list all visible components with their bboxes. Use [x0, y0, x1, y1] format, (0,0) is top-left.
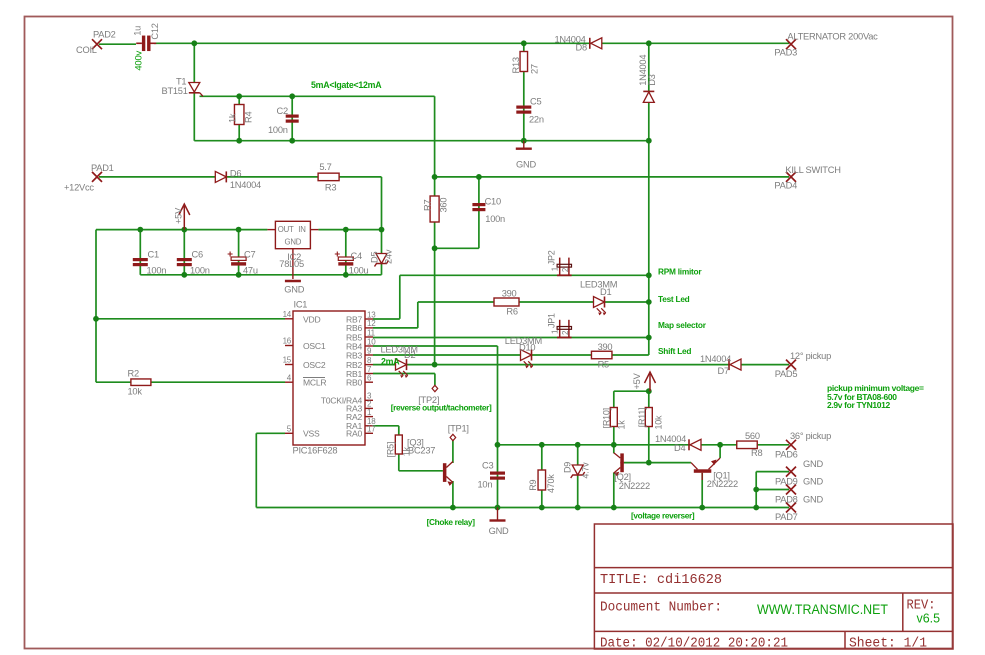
svg-text:MCLR: MCLR	[303, 378, 326, 388]
svg-text:ALTERNATOR 200Vac: ALTERNATOR 200Vac	[787, 32, 878, 42]
svg-text:[R10]: [R10]	[602, 408, 612, 428]
svg-text:COIL: COIL	[76, 45, 97, 55]
svg-text:13: 13	[367, 310, 376, 319]
svg-text:5.7: 5.7	[319, 162, 331, 172]
svg-text:PAD5: PAD5	[775, 369, 798, 379]
svg-text:400v: 400v	[134, 50, 145, 70]
svg-text:1N4004: 1N4004	[700, 354, 731, 364]
svg-text:BT151: BT151	[162, 86, 188, 96]
svg-text:GND: GND	[803, 495, 823, 505]
svg-text:D6: D6	[230, 169, 241, 179]
svg-text:36° pickup: 36° pickup	[790, 431, 831, 441]
svg-text:24v: 24v	[384, 249, 394, 264]
svg-text:GND: GND	[803, 477, 823, 487]
svg-text:22n: 22n	[529, 114, 544, 124]
svg-text:RB0: RB0	[346, 378, 362, 388]
svg-text:16: 16	[283, 337, 292, 346]
svg-text:C2: C2	[277, 106, 288, 116]
svg-text:D2: D2	[404, 350, 415, 360]
svg-text:JP2: JP2	[547, 250, 557, 265]
svg-text:GND: GND	[489, 526, 509, 536]
svg-text:PAD2: PAD2	[93, 30, 116, 40]
svg-text:R9: R9	[528, 480, 538, 491]
svg-text:C1: C1	[148, 250, 159, 260]
svg-text:5mA<Igate<12mA: 5mA<Igate<12mA	[311, 80, 382, 90]
svg-text:560: 560	[745, 431, 760, 441]
svg-text:C4: C4	[351, 251, 362, 261]
svg-text:100n: 100n	[147, 266, 167, 276]
svg-text:[voltage reverser]: [voltage reverser]	[631, 511, 695, 521]
svg-text:PIC16F628: PIC16F628	[293, 446, 338, 456]
svg-text:15: 15	[283, 356, 292, 365]
svg-text:1u: 1u	[133, 26, 143, 36]
svg-text:390: 390	[502, 289, 517, 299]
svg-text:C6: C6	[192, 250, 203, 260]
svg-text:10k: 10k	[128, 387, 143, 397]
svg-text:JP1: JP1	[547, 313, 557, 328]
svg-text:1k: 1k	[228, 113, 238, 123]
svg-text:RB3: RB3	[346, 350, 362, 360]
svg-text:100n: 100n	[190, 266, 210, 276]
svg-text:R8: R8	[751, 448, 762, 458]
svg-text:2N2222: 2N2222	[619, 481, 650, 491]
svg-text:D8: D8	[576, 43, 587, 53]
svg-text:C5: C5	[530, 97, 541, 107]
svg-text:Sheet: 1/1: Sheet: 1/1	[849, 636, 927, 652]
svg-text:D1: D1	[600, 287, 611, 297]
svg-text:T1: T1	[176, 77, 186, 87]
svg-text:+12Vcc: +12Vcc	[64, 183, 94, 193]
svg-text:R5: R5	[598, 360, 609, 370]
svg-text:GND: GND	[285, 237, 302, 246]
svg-text:11: 11	[367, 328, 376, 337]
svg-text:[reverse output/tachometer]: [reverse output/tachometer]	[391, 402, 492, 412]
svg-text:GND: GND	[284, 285, 304, 295]
svg-text:390: 390	[598, 342, 613, 352]
svg-text:+5V: +5V	[174, 207, 184, 224]
svg-text:R4: R4	[244, 112, 254, 123]
svg-text:17: 17	[367, 425, 376, 434]
svg-text:1N4004: 1N4004	[230, 180, 261, 190]
svg-text:Shift Led: Shift Led	[658, 346, 691, 356]
svg-text:10k: 10k	[654, 415, 664, 430]
svg-text:Map selector: Map selector	[658, 320, 707, 330]
svg-text:v6.5: v6.5	[917, 611, 941, 626]
svg-text:Document Number:: Document Number:	[600, 600, 722, 616]
svg-text:100n: 100n	[485, 214, 505, 224]
svg-text:D3: D3	[647, 74, 657, 85]
svg-text:TITLE: cdi16628: TITLE: cdi16628	[600, 572, 722, 588]
svg-text:D7: D7	[718, 366, 729, 376]
svg-text:78L05: 78L05	[279, 259, 304, 269]
svg-text:OSC2: OSC2	[303, 360, 326, 370]
svg-text:47u: 47u	[243, 266, 258, 276]
svg-text:IC1: IC1	[294, 300, 308, 310]
svg-text:R2: R2	[128, 368, 139, 378]
svg-text:12: 12	[367, 319, 376, 328]
svg-text:100n: 100n	[268, 125, 288, 135]
svg-text:[Choke relay]: [Choke relay]	[427, 517, 476, 527]
svg-text:4.7v: 4.7v	[581, 462, 591, 479]
svg-text:R7: R7	[423, 200, 433, 211]
svg-text:PAD6: PAD6	[775, 450, 798, 460]
svg-text:C3: C3	[482, 461, 493, 471]
svg-text:470k: 470k	[546, 474, 556, 493]
svg-text:C12: C12	[150, 23, 160, 39]
svg-text:10: 10	[367, 337, 376, 346]
svg-text:27: 27	[530, 64, 540, 74]
svg-text:D5: D5	[370, 252, 380, 263]
svg-text:R6: R6	[506, 306, 517, 316]
svg-text:[R5]: [R5]	[386, 442, 396, 458]
svg-text:2N2222: 2N2222	[707, 479, 738, 489]
svg-text:IN: IN	[298, 225, 305, 234]
svg-text:R13: R13	[511, 57, 521, 73]
svg-text:PAD3: PAD3	[774, 48, 797, 58]
svg-text:100u: 100u	[349, 266, 369, 276]
svg-text:2.9v for TYN1012: 2.9v for TYN1012	[827, 400, 891, 410]
svg-text:2mA: 2mA	[381, 356, 400, 366]
svg-text:Date: 02/10/2012 20:20:21: Date: 02/10/2012 20:20:21	[600, 636, 788, 652]
svg-text:RA0: RA0	[346, 429, 362, 439]
svg-text:D10: D10	[519, 342, 535, 352]
svg-text:12° pickup: 12° pickup	[790, 351, 831, 361]
svg-text:10n: 10n	[478, 479, 493, 489]
svg-text:LED3MM: LED3MM	[580, 280, 617, 290]
svg-text:PAD9: PAD9	[775, 477, 798, 487]
svg-text:PAD7: PAD7	[775, 512, 798, 522]
svg-text:BC237: BC237	[408, 446, 435, 456]
svg-text:VDD: VDD	[303, 314, 320, 324]
svg-text:C7: C7	[244, 250, 255, 260]
svg-text:GND: GND	[803, 459, 823, 469]
svg-text:[TP1]: [TP1]	[448, 424, 469, 434]
svg-text:PAD8: PAD8	[775, 495, 798, 505]
svg-text:PAD4: PAD4	[774, 181, 797, 191]
svg-text:+5V: +5V	[632, 372, 642, 389]
svg-text:C10: C10	[485, 197, 501, 207]
svg-text:OUT: OUT	[278, 225, 294, 234]
svg-text:PAD1: PAD1	[91, 163, 114, 173]
svg-text:1k: 1k	[617, 420, 627, 430]
svg-text:14: 14	[283, 310, 292, 319]
svg-text:[R11]: [R11]	[637, 408, 647, 428]
svg-text:RPM limitor: RPM limitor	[658, 266, 702, 276]
svg-text:R3: R3	[325, 183, 336, 193]
svg-text:D4: D4	[674, 443, 685, 453]
svg-text:Test Led: Test Led	[658, 294, 690, 304]
svg-text:GND: GND	[516, 160, 536, 170]
svg-text:D9: D9	[563, 462, 573, 473]
svg-text:KILL SWITCH: KILL SWITCH	[785, 165, 840, 175]
svg-text:WWW.TRANSMIC.NET: WWW.TRANSMIC.NET	[757, 602, 888, 617]
svg-text:VSS: VSS	[303, 429, 320, 439]
svg-text:360: 360	[439, 198, 449, 213]
svg-text:OSC1: OSC1	[303, 341, 326, 351]
